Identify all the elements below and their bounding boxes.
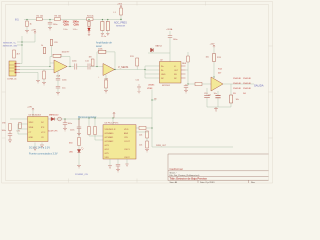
svg-text:OSC1: OSC1 — [124, 149, 131, 151]
inductor L1 — [113, 8, 122, 19]
resistor R8 — [88, 57, 93, 66]
resistor R4 — [87, 15, 95, 20]
ground — [101, 33, 104, 35]
capacitor C4 — [101, 19, 109, 37]
svg-text:LED: LED — [69, 152, 74, 154]
resistor R10 — [98, 74, 107, 89]
svg-text:Amplificador de: Amplificador de — [96, 42, 112, 45]
svg-text:REF: REF — [182, 63, 187, 65]
ground — [25, 30, 29, 32]
capacitor C14 — [213, 91, 220, 107]
capacitor C11 series — [85, 61, 103, 70]
wire top rail — [79, 118, 152, 124]
svg-text:1k: 1k — [41, 45, 43, 47]
svg-text:U5 MC34063: U5 MC34063 — [28, 114, 41, 116]
svg-text:100n: 100n — [1, 130, 5, 132]
resistor R13 — [205, 53, 221, 76]
svg-text:1N4148: 1N4148 — [243, 88, 251, 90]
resistor R24 — [16, 122, 21, 132]
wire bottom horizontal — [152, 146, 233, 148]
capacitor C17 — [70, 118, 81, 133]
ground — [8, 140, 12, 143]
power +24V in — [27, 107, 34, 117]
svg-text:Rev:: Rev: — [251, 182, 256, 184]
op-amp U1A — [54, 60, 67, 78]
svg-text:R2 10k: R2 10k — [36, 15, 44, 17]
svg-text:VREF: VREF — [147, 88, 153, 90]
wire U5 bottom — [35, 142, 42, 147]
capacitor C19 — [204, 88, 210, 107]
diode D2 — [148, 45, 170, 53]
ground — [145, 149, 149, 152]
ground — [42, 82, 46, 84]
resistor R3 — [54, 15, 62, 20]
capacitor C18 — [116, 164, 120, 169]
svg-text:MBR0520: MBR0520 — [49, 115, 59, 117]
capacitor C3 — [101, 19, 104, 32]
ground — [137, 91, 140, 93]
wire mcu right2 — [136, 131, 148, 133]
resistor R6 — [43, 69, 46, 81]
capacitor C7 — [56, 86, 67, 92]
svg-text:C9A: C9A — [73, 22, 78, 26]
resistor R1 — [26, 19, 33, 29]
svg-text:R4 10k: R4 10k — [87, 15, 95, 17]
svg-text:Fuente conmutada a 3.3V: Fuente conmutada a 3.3V — [29, 152, 58, 155]
ground under U5 a — [33, 148, 37, 151]
resistor R11 — [130, 56, 139, 69]
svg-text:SENSOR: SENSOR — [116, 26, 126, 28]
svg-text:Size: A4: Size: A4 — [169, 181, 177, 184]
svg-text:CII: CII — [41, 137, 44, 139]
svg-text:MCP601: MCP601 — [162, 85, 171, 87]
divider line — [168, 179, 268, 181]
svg-text:100n: 100n — [63, 29, 69, 31]
ground — [36, 80, 40, 83]
svg-text:10k: 10k — [139, 145, 142, 147]
svg-text:1N4148: 1N4148 — [243, 78, 251, 80]
ground — [63, 128, 67, 131]
resistor R7 — [53, 51, 70, 57]
svg-text:IN-: IN- — [161, 70, 164, 72]
ground under U5 b — [40, 145, 44, 148]
resistor R22 — [230, 84, 240, 107]
capacitor C13 — [184, 84, 188, 90]
sheet outer frame — [2, 1, 273, 182]
power +24V — [22, 30, 37, 42]
svg-text:1M: 1M — [88, 57, 91, 59]
power +3V3 mcu — [113, 112, 115, 118]
power +24V comp — [209, 44, 215, 55]
capacitor C10 series — [72, 61, 87, 70]
wire down to LED — [78, 119, 80, 137]
wire opamp2 out — [115, 68, 145, 70]
svg-text:C12: C12 — [135, 79, 139, 81]
wire into U2 top — [169, 53, 171, 61]
resistor R2 — [36, 15, 44, 20]
title block frame — [168, 154, 268, 180]
resistor R15 — [139, 131, 148, 138]
resistor R5 — [13, 50, 21, 58]
svg-text:CONN_01: CONN_01 — [7, 78, 17, 80]
varistor RV1 — [88, 21, 91, 35]
svg-text:DC-DC 24V a 3.3V: DC-DC 24V a 3.3V — [29, 146, 50, 149]
resistor R9 — [98, 49, 106, 54]
ground — [125, 164, 128, 166]
diode D3 — [49, 115, 59, 121]
svg-text:VCC: VCC — [41, 132, 46, 134]
svg-text:Title: Detector de Baja Presio: Title: Detector de Baja Presion — [169, 177, 207, 181]
ground — [104, 90, 108, 92]
wire feedback right — [60, 57, 70, 67]
wire U5 out — [48, 118, 79, 120]
svg-text:V_SENS: V_SENS — [118, 65, 128, 69]
connector J1 — [7, 61, 20, 80]
IC U2 — [159, 60, 180, 88]
svg-text:100n: 100n — [70, 130, 74, 132]
wires into U5 — [10, 119, 27, 134]
svg-text:GP2/AN2: GP2/AN2 — [104, 140, 114, 143]
svg-text:ADC_PRES: ADC_PRES — [114, 21, 127, 24]
resistor R23 — [182, 52, 189, 70]
capacitor C20 — [50, 39, 58, 56]
wire bus left — [17, 36, 22, 60]
svg-text:DC: DC — [41, 122, 45, 124]
ground — [56, 92, 60, 95]
wire main top — [24, 18, 121, 20]
svg-text:COUT: COUT — [124, 141, 131, 143]
transistor Q1 — [208, 77, 223, 97]
svg-text:SENSOR_V+: SENSOR_V+ — [3, 42, 17, 44]
svg-text:VDD/MCLR: VDD/MCLR — [104, 129, 115, 131]
wire comparator out — [223, 83, 254, 85]
svg-text:1N4148: 1N4148 — [233, 83, 241, 85]
svg-text:SWC: SWC — [28, 122, 33, 124]
svg-text:VIN: VIN — [2, 123, 6, 125]
svg-text:LM285: LM285 — [148, 85, 155, 87]
wire feedback up — [50, 57, 52, 63]
ground — [106, 33, 109, 35]
svg-text:+24V: +24V — [31, 30, 37, 32]
wire feedback up2 — [97, 52, 99, 66]
svg-text:CIN: CIN — [124, 137, 128, 139]
column dividers — [198, 180, 248, 183]
svg-text:U3 PIC12F675: U3 PIC12F675 — [104, 123, 119, 125]
wire pin4 — [20, 72, 38, 79]
resistor R17 — [1, 123, 11, 131]
svg-text:22uH CP1: 22uH CP1 — [48, 131, 58, 133]
svg-text:VSS: VSS — [104, 157, 109, 159]
ground — [116, 169, 120, 172]
svg-text:U1A: U1A — [56, 75, 61, 78]
capacitor C5 — [168, 31, 178, 53]
LED D4 — [69, 145, 83, 153]
svg-text:Date: 4 jul 2019: Date: 4 jul 2019 — [200, 181, 215, 184]
wire pin3 — [20, 68, 54, 70]
svg-text:1N4148: 1N4148 — [233, 88, 241, 90]
wire feedback right2 — [106, 52, 115, 70]
svg-text:10k: 10k — [139, 135, 142, 137]
svg-text:100n: 100n — [72, 29, 78, 31]
resistor R19 — [88, 118, 103, 136]
wire mcu bottom stubs — [110, 159, 127, 166]
MCU U3 — [103, 123, 136, 159]
IC U2 right pins — [181, 66, 185, 78]
wire U2 to comparator — [185, 70, 195, 84]
ground — [48, 27, 52, 29]
wire opamp1 out — [67, 65, 74, 67]
svg-text:Microcontrolador: Microcontrolador — [78, 116, 97, 119]
svg-text:10u: 10u — [213, 93, 216, 95]
resistor R16 — [139, 138, 148, 148]
svg-text:1u 1u: 1u 1u — [101, 36, 107, 38]
resistor R20 — [94, 118, 103, 140]
capacitor C1 — [48, 19, 58, 26]
frame ticks — [2, 1, 273, 182]
divider line — [168, 170, 268, 172]
divider line — [168, 176, 268, 178]
capacitor C6 — [56, 78, 68, 86]
ground — [214, 107, 218, 111]
op-amp U1B — [103, 63, 114, 80]
svg-text:senal: senal — [96, 46, 102, 48]
svg-text:OSC2: OSC2 — [124, 157, 131, 159]
svg-text:1N4148: 1N4148 — [233, 78, 241, 80]
svg-text:GND: GND — [161, 74, 166, 76]
svg-text:R3 10k: R3 10k — [54, 15, 62, 17]
ground — [108, 166, 112, 169]
svg-text:BAT54: BAT54 — [155, 45, 162, 48]
power +3V3 — [117, 4, 123, 8]
svg-text:SWE: SWE — [28, 127, 33, 129]
wire pin1 — [20, 60, 22, 63]
svg-text:PWM_OUT: PWM_OUT — [156, 145, 167, 147]
ground — [77, 133, 81, 136]
svg-text:GP1/AN1: GP1/AN1 — [104, 136, 114, 139]
svg-text:C8A: C8A — [63, 22, 68, 26]
capacitor C12 — [135, 79, 140, 91]
svg-text:CadCorner: CadCorner — [169, 167, 183, 171]
sheet inner frame — [5, 4, 268, 180]
svg-text:GP0/AN0: GP0/AN0 — [104, 132, 114, 135]
svg-text:GND: GND — [28, 137, 33, 139]
svg-text:IPK: IPK — [41, 127, 45, 129]
wire opamp1 bottom — [57, 71, 59, 78]
inductor L2 — [48, 117, 61, 132]
svg-text:100k R7: 100k R7 — [61, 51, 70, 53]
svg-text:+3V3: +3V3 — [117, 4, 123, 6]
svg-text:VDD: VDD — [124, 129, 129, 131]
wire long vertical — [151, 89, 153, 146]
capacitor C16 — [63, 119, 73, 128]
IC U5 — [27, 114, 47, 141]
svg-text:+3V3A: +3V3A — [166, 28, 173, 31]
svg-text:CT1: CT1 — [16, 130, 20, 132]
resistor R12 — [195, 82, 211, 85]
ground — [77, 165, 81, 168]
svg-text:SALIDA: SALIDA — [254, 83, 264, 87]
ground — [184, 90, 188, 92]
svg-text:POWER_ON: POWER_ON — [75, 174, 88, 176]
resistor R21 — [136, 126, 152, 129]
wire bottom rail — [207, 106, 231, 108]
svg-text:1N4148: 1N4148 — [243, 83, 251, 85]
wire pin2 — [20, 63, 54, 66]
node tick — [152, 99, 156, 101]
svg-text:+24V: +24V — [27, 107, 33, 109]
wire pins left — [145, 66, 159, 78]
wire LED down — [78, 153, 80, 165]
resistor R18 — [69, 137, 80, 145]
resistor R25 — [41, 45, 46, 53]
capacitor C15 — [8, 130, 12, 139]
svg-text:SENSOR_SIG: SENSOR_SIG — [3, 45, 18, 47]
